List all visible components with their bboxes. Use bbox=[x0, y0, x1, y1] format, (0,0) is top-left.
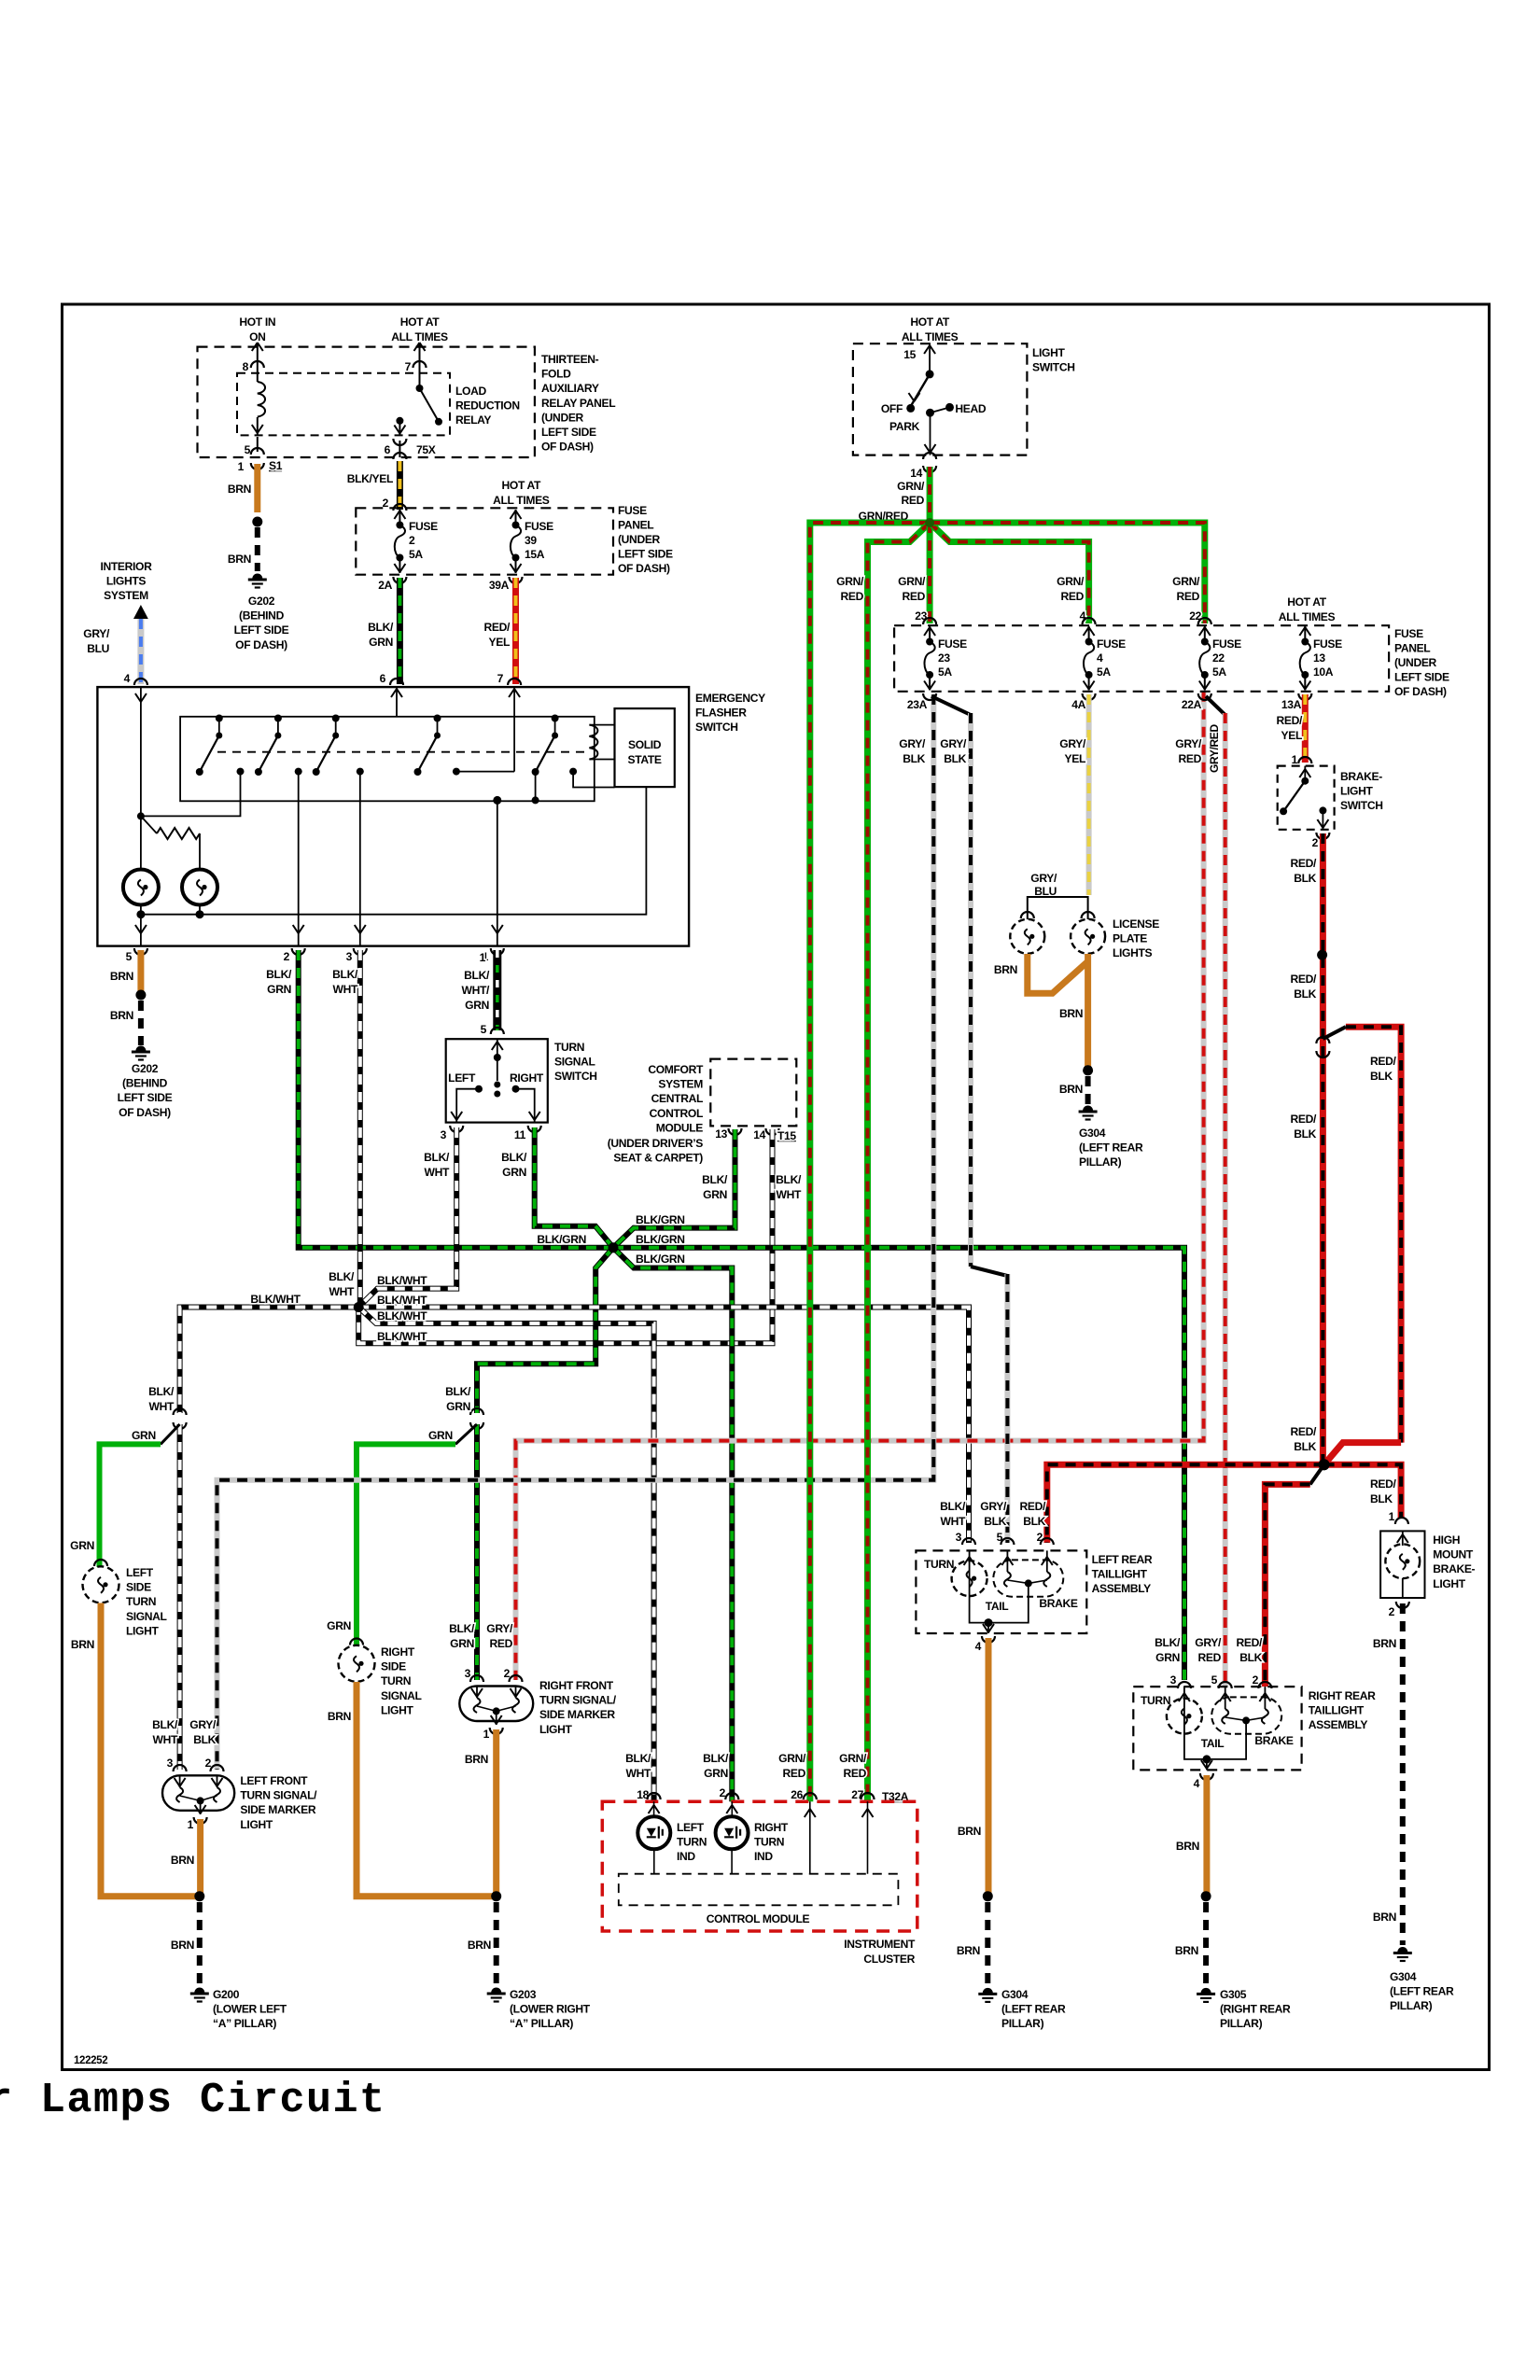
wire BLK/WHT flasher pin 3 to junction bbox=[357, 950, 363, 1308]
svg-text:SIDE MARKER: SIDE MARKER bbox=[240, 1803, 315, 1816]
svg-text:WHT/: WHT/ bbox=[462, 984, 490, 997]
wire BRN flasher pin 5 bbox=[137, 950, 144, 991]
svg-text:2: 2 bbox=[409, 534, 415, 547]
svg-text:PILLAR): PILLAR) bbox=[1390, 1999, 1433, 2012]
relay coil bbox=[258, 382, 265, 417]
splice BRN left bbox=[194, 1891, 204, 1901]
wire GRY/BLK 23A jog to left rear taillight pin 5 bbox=[931, 696, 971, 715]
svg-text:10A: 10A bbox=[1313, 665, 1334, 679]
svg-text:RED/: RED/ bbox=[1237, 1636, 1263, 1649]
svg-text:15: 15 bbox=[903, 348, 916, 361]
svg-text:GRN/: GRN/ bbox=[778, 1752, 806, 1765]
svg-text:BLK: BLK bbox=[903, 752, 925, 765]
pin 14 light switch bbox=[923, 453, 936, 459]
svg-text:(BEHIND: (BEHIND bbox=[239, 609, 285, 623]
svg-text:BLK/: BLK/ bbox=[464, 969, 490, 982]
svg-text:23A: 23A bbox=[907, 698, 928, 711]
svg-text:LIGHT: LIGHT bbox=[1032, 346, 1065, 359]
svg-text:LEFT FRONT: LEFT FRONT bbox=[240, 1774, 308, 1787]
svg-text:GRY/: GRY/ bbox=[1059, 737, 1086, 750]
svg-text:TURN: TURN bbox=[1141, 1694, 1170, 1707]
svg-text:LEFT REAR: LEFT REAR bbox=[1092, 1553, 1153, 1566]
svg-text:ALL TIMES: ALL TIMES bbox=[902, 330, 959, 343]
svg-text:PLATE: PLATE bbox=[1113, 932, 1147, 945]
svg-text:OF DASH): OF DASH) bbox=[235, 638, 287, 651]
svg-text:BLK/GRN: BLK/GRN bbox=[636, 1213, 685, 1226]
svg-text:HOT AT: HOT AT bbox=[1287, 595, 1327, 609]
left side turn signal light bbox=[83, 1566, 119, 1603]
svg-text:G305: G305 bbox=[1220, 1988, 1247, 2001]
svg-text:INTERIOR: INTERIOR bbox=[101, 560, 153, 573]
left rear taillight internal ground wires bbox=[970, 1598, 988, 1623]
svg-text:SWITCH: SWITCH bbox=[695, 721, 738, 734]
svg-text:HIGH: HIGH bbox=[1433, 1533, 1460, 1547]
svg-text:BLK/: BLK/ bbox=[148, 1385, 175, 1398]
svg-text:ASSEMBLY: ASSEMBLY bbox=[1309, 1718, 1368, 1731]
svg-text:BLK/WHT: BLK/WHT bbox=[377, 1309, 427, 1323]
svg-text:WHT: WHT bbox=[333, 983, 358, 996]
svg-text:3: 3 bbox=[1170, 1673, 1177, 1687]
contact HEAD bbox=[945, 403, 954, 412]
svg-text:(LOWER RIGHT: (LOWER RIGHT bbox=[510, 2003, 591, 2016]
svg-text:SYSTEM: SYSTEM bbox=[104, 589, 148, 602]
svg-text:RED/: RED/ bbox=[1291, 857, 1317, 870]
svg-text:BLK/: BLK/ bbox=[368, 621, 394, 634]
left rear TURN lamp bbox=[969, 1550, 971, 1598]
wire GRY/RED fuse 22A to right front turn signal pin 2 bbox=[516, 692, 1204, 1680]
svg-text:WHT: WHT bbox=[329, 1285, 355, 1298]
high mount lamp bbox=[1402, 1531, 1404, 1546]
svg-text:RED: RED bbox=[844, 1767, 867, 1780]
svg-text:LIGHT: LIGHT bbox=[240, 1818, 273, 1831]
svg-text:ASSEMBLY: ASSEMBLY bbox=[1092, 1582, 1152, 1595]
svg-text:REDUCTION: REDUCTION bbox=[455, 399, 520, 413]
svg-text:SWITCH: SWITCH bbox=[554, 1070, 597, 1083]
svg-text:ALL TIMES: ALL TIMES bbox=[1279, 610, 1336, 623]
svg-text:“A” PILLAR): “A” PILLAR) bbox=[510, 2017, 573, 2030]
svg-text:3: 3 bbox=[346, 950, 353, 963]
junction BLK/GRN bbox=[609, 1242, 619, 1253]
wire BLK/WHT turn signal pin 3 to junction bbox=[358, 1127, 456, 1308]
svg-text:BLK/YEL: BLK/YEL bbox=[347, 472, 394, 485]
wire BRN dashed to G305 bbox=[1203, 1902, 1209, 1986]
svg-text:RED/: RED/ bbox=[1370, 1055, 1396, 1068]
svg-text:OFF: OFF bbox=[881, 402, 903, 415]
splice RED/BLK bbox=[1317, 950, 1327, 960]
fuse 2 5A bbox=[395, 510, 405, 573]
svg-text:GRN/: GRN/ bbox=[839, 1752, 867, 1765]
svg-text:13: 13 bbox=[1313, 651, 1325, 665]
wire BRN license plate right to splice bbox=[1085, 954, 1091, 1071]
svg-text:TURN: TURN bbox=[554, 1041, 584, 1054]
fuse panel 2 box bbox=[894, 625, 1389, 692]
right front turn signal side marker lamp bbox=[459, 1687, 533, 1722]
brake switch lever bbox=[1283, 781, 1305, 812]
svg-text:COMFORT: COMFORT bbox=[648, 1063, 704, 1076]
svg-text:(RIGHT REAR: (RIGHT REAR bbox=[1220, 2003, 1291, 2016]
svg-text:(UNDER DRIVER’S: (UNDER DRIVER’S bbox=[608, 1137, 704, 1150]
right rear TURN lamp bbox=[1183, 1687, 1185, 1734]
svg-text:5: 5 bbox=[245, 443, 251, 456]
flasher switch 5 bbox=[532, 715, 578, 777]
svg-text:BRN: BRN bbox=[957, 1944, 980, 1957]
svg-text:PILLAR): PILLAR) bbox=[1001, 2017, 1044, 2030]
svg-text:BLK: BLK bbox=[1294, 1440, 1316, 1453]
svg-text:1: 1 bbox=[188, 1818, 194, 1831]
svg-text:GRN: GRN bbox=[704, 1767, 728, 1780]
wire BLK/GRN splice to right front turn signal pin 3 bbox=[474, 1424, 480, 1680]
svg-text:SOLID: SOLID bbox=[628, 738, 662, 751]
splice diagonal to GRN right bbox=[455, 1424, 477, 1444]
svg-text:BLK: BLK bbox=[1370, 1070, 1393, 1083]
border frame bbox=[63, 304, 1490, 2070]
wire GRY/BLU bbox=[137, 619, 144, 684]
wire BRN dashed to G200 bbox=[197, 1902, 203, 1986]
wire left turn ind to control module bbox=[653, 1850, 655, 1874]
svg-text:11: 11 bbox=[514, 1128, 526, 1141]
svg-text:G304: G304 bbox=[1001, 1988, 1029, 2001]
arrow to interior lights system bbox=[133, 605, 148, 619]
svg-text:5A: 5A bbox=[1212, 665, 1226, 679]
wire GRN/RED junction to instrument cluster pin 27 bbox=[868, 523, 931, 1801]
right rear TAIL BRAKE lamp oval bbox=[1211, 1697, 1281, 1733]
svg-text:(LEFT REAR: (LEFT REAR bbox=[1001, 2003, 1066, 2016]
wire GRY/BLK fuse 23A to left front turn signal pin 2 bbox=[217, 694, 934, 1770]
svg-text:GRN/: GRN/ bbox=[898, 575, 926, 588]
svg-text:GRN: GRN bbox=[132, 1429, 156, 1442]
flasher resistor bbox=[141, 816, 157, 833]
license plate light right bbox=[1071, 919, 1105, 954]
svg-text:SIGNAL: SIGNAL bbox=[554, 1056, 596, 1069]
svg-text:4A: 4A bbox=[1071, 698, 1085, 711]
svg-text:GRN: GRN bbox=[369, 636, 393, 649]
splice diagonal to GRN left bbox=[161, 1424, 180, 1444]
svg-text:LEFT SIDE: LEFT SIDE bbox=[234, 623, 289, 637]
turn signal switch interior bbox=[497, 1039, 498, 1056]
svg-text:OF DASH): OF DASH) bbox=[1394, 685, 1447, 698]
svg-text:LIGHT: LIGHT bbox=[1433, 1577, 1465, 1590]
ground G202 lower bbox=[132, 1046, 150, 1060]
svg-text:LIGHT: LIGHT bbox=[1340, 785, 1373, 798]
junction TAIL BRAKE right bbox=[1242, 1716, 1250, 1724]
svg-text:GRN: GRN bbox=[267, 983, 291, 996]
coil bottom wire bbox=[257, 417, 259, 435]
svg-text:AUXILIARY: AUXILIARY bbox=[541, 382, 599, 395]
flasher switch 1 bbox=[196, 715, 245, 777]
svg-text:RED: RED bbox=[490, 1637, 513, 1650]
svg-text:13: 13 bbox=[715, 1127, 727, 1141]
svg-text:BRN: BRN bbox=[110, 970, 133, 983]
svg-text:BLK: BLK bbox=[1370, 1492, 1393, 1505]
svg-text:BLK/WHT: BLK/WHT bbox=[377, 1294, 427, 1307]
wire BLK/WHT junction to instrument cluster pin 18 bbox=[358, 1308, 653, 1802]
svg-text:8: 8 bbox=[243, 360, 249, 373]
svg-text:22A: 22A bbox=[1182, 698, 1202, 711]
junction RED/BLK overdraw bbox=[1319, 1459, 1330, 1470]
arrow to HOT IN ON bbox=[252, 343, 263, 351]
switch1 contact to pin4 line bbox=[141, 772, 241, 817]
svg-text:LEFT: LEFT bbox=[126, 1566, 154, 1579]
svg-text:BRN: BRN bbox=[1176, 1840, 1199, 1853]
svg-text:GRY/: GRY/ bbox=[486, 1622, 513, 1635]
svg-text:BRN: BRN bbox=[958, 1825, 981, 1838]
svg-text:GRY/: GRY/ bbox=[899, 737, 926, 750]
svg-text:RED/: RED/ bbox=[1291, 1425, 1317, 1438]
svg-text:BRN: BRN bbox=[228, 483, 251, 496]
wire BRN dashed to G202 bbox=[255, 527, 260, 571]
svg-text:BLK: BLK bbox=[1294, 872, 1316, 885]
svg-text:SWITCH: SWITCH bbox=[1032, 361, 1075, 374]
svg-text:5A: 5A bbox=[409, 548, 423, 561]
wire lamps to solid state bbox=[141, 787, 647, 915]
svg-text:BRN: BRN bbox=[110, 1009, 133, 1022]
right side turn signal light bbox=[339, 1645, 375, 1682]
wire RED/BLK junction to high mount brake light bbox=[1324, 1464, 1402, 1518]
svg-text:TURN: TURN bbox=[381, 1674, 411, 1687]
license plate lights feed elbow bbox=[1028, 897, 1088, 919]
svg-text:BLK/: BLK/ bbox=[329, 1270, 355, 1283]
svg-text:BLK/WHT: BLK/WHT bbox=[377, 1274, 427, 1287]
svg-text:WHT: WHT bbox=[149, 1400, 175, 1413]
svg-text:SIDE MARKER: SIDE MARKER bbox=[539, 1708, 615, 1721]
svg-text:RED/: RED/ bbox=[1291, 1113, 1317, 1126]
svg-text:3: 3 bbox=[465, 1667, 471, 1680]
light switch interior bbox=[924, 345, 935, 354]
wire BRN dashed to G202 lower bbox=[138, 1001, 144, 1045]
svg-text:GRN: GRN bbox=[450, 1637, 474, 1650]
svg-text:LEFT SIDE: LEFT SIDE bbox=[1394, 671, 1449, 684]
svg-text:CONTROL: CONTROL bbox=[650, 1107, 704, 1120]
switch5 contact to solid state bbox=[573, 772, 614, 788]
svg-text:2: 2 bbox=[383, 497, 389, 510]
wire RED/YEL 13A to brake light switch bbox=[1302, 694, 1309, 763]
svg-text:SIGNAL: SIGNAL bbox=[381, 1689, 423, 1702]
svg-text:(LEFT REAR: (LEFT REAR bbox=[1079, 1141, 1143, 1155]
wire RED/BLK branch to high mount loop bbox=[1323, 1027, 1346, 1039]
switch4 contact wire to pin 7 bbox=[456, 771, 514, 773]
svg-text:BRN: BRN bbox=[1175, 1944, 1198, 1957]
switch3 contact wire to pin 3 bbox=[359, 772, 361, 946]
wire BRN right rear taillight pin 4 bbox=[1203, 1775, 1210, 1897]
svg-text:BRAKE: BRAKE bbox=[1039, 1597, 1078, 1610]
svg-text:2A: 2A bbox=[378, 579, 392, 592]
svg-text:LIGHTS: LIGHTS bbox=[106, 575, 147, 588]
svg-text:1: 1 bbox=[238, 460, 245, 473]
svg-text:BLK/: BLK/ bbox=[266, 968, 292, 981]
svg-text:RED/: RED/ bbox=[1020, 1500, 1046, 1513]
flasher bottom bus wire bbox=[140, 905, 142, 946]
flasher pin 6 internal wire bbox=[396, 687, 398, 717]
svg-text:BRN: BRN bbox=[994, 963, 1017, 976]
svg-text:HOT AT: HOT AT bbox=[400, 315, 441, 329]
svg-text:LEFT SIDE: LEFT SIDE bbox=[618, 548, 673, 561]
svg-text:SIDE: SIDE bbox=[126, 1581, 151, 1594]
ground G304 license bbox=[1079, 1106, 1098, 1120]
splice BRN left rear bbox=[983, 1891, 993, 1901]
svg-text:FUSE: FUSE bbox=[1313, 637, 1342, 651]
svg-text:BLK: BLK bbox=[944, 752, 966, 765]
svg-text:BRN: BRN bbox=[1373, 1911, 1396, 1924]
svg-text:GRY/: GRY/ bbox=[980, 1500, 1007, 1513]
svg-text:BLK/: BLK/ bbox=[152, 1718, 178, 1731]
svg-text:CENTRAL: CENTRAL bbox=[651, 1092, 704, 1105]
svg-text:(UNDER: (UNDER bbox=[1394, 656, 1437, 669]
svg-text:G304: G304 bbox=[1079, 1127, 1106, 1140]
svg-text:YEL: YEL bbox=[1281, 729, 1303, 742]
relay contact to pin 6 bbox=[396, 417, 403, 425]
svg-text:RED: RED bbox=[903, 590, 926, 603]
wire RED/BLK brake switch to junction bbox=[1320, 833, 1326, 1464]
svg-text:BLU: BLU bbox=[87, 642, 109, 655]
svg-text:TURN: TURN bbox=[126, 1595, 156, 1608]
wire contact to pin 6 bbox=[399, 421, 400, 436]
svg-text:5: 5 bbox=[126, 950, 133, 963]
svg-text:HOT AT: HOT AT bbox=[502, 479, 542, 492]
svg-text:HOT AT: HOT AT bbox=[910, 315, 950, 329]
wire BRN dashed to G203 bbox=[494, 1902, 499, 1986]
svg-text:GRN: GRN bbox=[428, 1429, 453, 1442]
svg-text:IND: IND bbox=[754, 1850, 773, 1863]
splice BRN right bbox=[491, 1891, 501, 1901]
svg-text:TURN: TURN bbox=[924, 1558, 954, 1571]
svg-text:BLK: BLK bbox=[984, 1515, 1006, 1528]
svg-text:FUSE: FUSE bbox=[618, 504, 647, 517]
svg-text:3: 3 bbox=[956, 1531, 962, 1544]
svg-text:BRN: BRN bbox=[171, 1854, 194, 1867]
svg-text:LIGHTS: LIGHTS bbox=[1113, 946, 1153, 959]
svg-text:4: 4 bbox=[1097, 651, 1103, 665]
solid state box bbox=[615, 708, 675, 787]
svg-text:LOAD: LOAD bbox=[455, 385, 486, 398]
svg-text:RED: RED bbox=[1179, 752, 1202, 765]
switch2 contact wire to pin 2 bbox=[298, 772, 300, 946]
pin 6 stub bbox=[399, 441, 400, 457]
svg-text:6: 6 bbox=[380, 672, 386, 685]
pin 6 connector bbox=[393, 439, 406, 445]
wire BLK/GRN 2A to flasher pin 6 bbox=[397, 578, 403, 684]
svg-text:GRY/: GRY/ bbox=[1195, 1636, 1222, 1649]
svg-text:CONTROL MODULE: CONTROL MODULE bbox=[707, 1912, 810, 1925]
wire BRN license plate left bbox=[1028, 954, 1088, 993]
svg-text:(UNDER: (UNDER bbox=[618, 533, 661, 546]
svg-text:RELAY PANEL: RELAY PANEL bbox=[541, 397, 616, 410]
svg-text:BLK/: BLK/ bbox=[449, 1622, 475, 1635]
wire BRN left side turn signal to splice bbox=[101, 1603, 200, 1897]
relay switch lever bbox=[420, 388, 440, 422]
svg-text:BLK/: BLK/ bbox=[332, 968, 358, 981]
svg-text:WHT: WHT bbox=[153, 1733, 178, 1746]
junction BLK/WHT bbox=[354, 1302, 364, 1312]
arrow to HOT AT ALL TIMES bbox=[414, 343, 426, 351]
light switch lever bbox=[912, 374, 931, 405]
flasher coil at solid state bbox=[589, 725, 597, 760]
svg-text:ALL TIMES: ALL TIMES bbox=[493, 494, 550, 507]
svg-text:OF DASH): OF DASH) bbox=[119, 1106, 171, 1119]
svg-text:2: 2 bbox=[1312, 836, 1319, 849]
svg-text:7: 7 bbox=[405, 360, 412, 373]
svg-text:BLK/GRN: BLK/GRN bbox=[537, 1233, 586, 1246]
flasher lamp 1 bbox=[123, 870, 159, 905]
inline connector RED/BLK bbox=[1316, 1037, 1329, 1043]
wire RED/YEL 39A to flasher pin 7 bbox=[512, 578, 519, 684]
fuse panel 1 box bbox=[356, 508, 613, 574]
svg-text:1: 1 bbox=[1389, 1510, 1395, 1523]
svg-text:S1: S1 bbox=[269, 459, 283, 472]
connector on BLK/WHT at left splice bbox=[174, 1408, 187, 1415]
splice BRN bbox=[135, 990, 146, 1001]
fuse 22 5A bbox=[1199, 626, 1210, 691]
wire BRN dashed to G304 left rear bbox=[985, 1902, 990, 1986]
instrument cluster internal wires bbox=[653, 1801, 655, 1816]
svg-text:BRN: BRN bbox=[465, 1753, 488, 1766]
wire BLK/GRN turn signal pin 11 to X junction bbox=[535, 1127, 613, 1248]
svg-text:14: 14 bbox=[910, 467, 922, 480]
svg-text:G304: G304 bbox=[1390, 1970, 1417, 1983]
svg-text:FUSE: FUSE bbox=[1394, 627, 1423, 640]
splice S1 bbox=[252, 517, 262, 527]
fuse 13 10A bbox=[1300, 626, 1310, 691]
ground G304 left rear bbox=[978, 1988, 997, 2002]
license plate light left bbox=[1010, 919, 1044, 954]
svg-text:1: 1 bbox=[1292, 753, 1298, 766]
svg-text:PANEL: PANEL bbox=[618, 519, 654, 532]
flasher switch 2 bbox=[255, 715, 302, 777]
svg-text:(LOWER LEFT: (LOWER LEFT bbox=[213, 2003, 287, 2016]
svg-text:39: 39 bbox=[525, 534, 537, 547]
wire RED/BLK junction to right rear taillight pin 2 bbox=[1310, 1464, 1324, 1484]
svg-text:RED/: RED/ bbox=[1291, 973, 1317, 986]
wire GRN/RED junction to fuse 4 bbox=[930, 523, 1089, 623]
svg-text:GRY/: GRY/ bbox=[189, 1718, 217, 1731]
left turn indicator bbox=[637, 1816, 670, 1849]
svg-text:BRN: BRN bbox=[228, 553, 251, 566]
svg-text:LEFT: LEFT bbox=[448, 1071, 476, 1085]
comfort system central control module box bbox=[710, 1059, 796, 1127]
wire pin8 to coil bbox=[257, 343, 259, 382]
svg-text:BLK: BLK bbox=[193, 1733, 216, 1746]
svg-text:PANEL: PANEL bbox=[1394, 642, 1431, 655]
svg-text:5A: 5A bbox=[938, 665, 952, 679]
left front turn signal side marker lamp bbox=[162, 1775, 234, 1811]
svg-text:LEFT SIDE: LEFT SIDE bbox=[118, 1091, 173, 1104]
svg-text:SIDE: SIDE bbox=[381, 1660, 406, 1673]
svg-text:RED: RED bbox=[841, 590, 864, 603]
wire GRN/RED junction to fuse 23 bbox=[927, 523, 933, 623]
svg-text:GRN: GRN bbox=[70, 1539, 94, 1552]
svg-text:HEAD: HEAD bbox=[955, 402, 986, 415]
svg-text:GRN: GRN bbox=[327, 1619, 351, 1632]
svg-text:(UNDER: (UNDER bbox=[541, 411, 584, 424]
svg-text:GRY/: GRY/ bbox=[83, 627, 110, 640]
wire BLK/GRN comfort pin 13 to X junction bbox=[613, 1129, 735, 1248]
svg-text:BLK/: BLK/ bbox=[940, 1500, 966, 1513]
flasher pin 4 internal wire bbox=[140, 687, 142, 870]
svg-text:23: 23 bbox=[938, 651, 950, 665]
svg-text:WHT: WHT bbox=[941, 1515, 966, 1528]
turn signal switch box bbox=[446, 1039, 548, 1122]
svg-text:TURN SIGNAL/: TURN SIGNAL/ bbox=[240, 1789, 317, 1802]
svg-text:BRN: BRN bbox=[328, 1710, 351, 1723]
svg-text:BLK/: BLK/ bbox=[501, 1151, 527, 1164]
wire BLK/WHT junction to left front splice bbox=[180, 1308, 359, 1414]
wire BRN right front pin 1 bbox=[493, 1729, 499, 1897]
wire BRN left rear taillight pin 4 bbox=[986, 1638, 992, 1897]
wire BLK/GRN X junction to instrument cluster pin 2 bbox=[613, 1248, 732, 1801]
high mount brake light box bbox=[1380, 1531, 1424, 1598]
wire GRN/RED junction to instrument cluster pin 26 bbox=[810, 523, 930, 1801]
svg-text:MOUNT: MOUNT bbox=[1433, 1548, 1474, 1561]
svg-text:7: 7 bbox=[497, 672, 504, 685]
